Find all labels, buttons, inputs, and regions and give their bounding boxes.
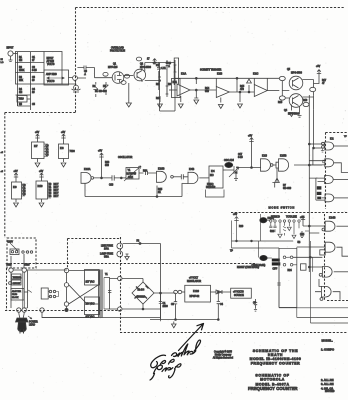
svg-text:SOURCE: SOURCE — [234, 295, 244, 297]
svg-text:+5V: +5V — [300, 217, 305, 219]
svg-text:C8: C8 — [168, 63, 172, 65]
svg-text:R18: R18 — [278, 102, 283, 104]
svg-text:C6: C6 — [84, 71, 88, 73]
svg-text:IC1B: IC1B — [217, 74, 223, 76]
svg-text:3/8A: 3/8A — [104, 256, 109, 259]
svg-text:MHZ: MHZ — [128, 177, 134, 179]
svg-text:R2: R2 — [19, 67, 23, 69]
svg-text:C2: C2 — [32, 67, 36, 69]
svg-text:TOTALIZE: TOTALIZE — [286, 216, 297, 219]
svg-text:MODEL.: MODEL. — [322, 339, 333, 343]
svg-text:+5V: +5V — [248, 136, 253, 138]
svg-text:R35: R35 — [158, 189, 163, 191]
svg-text:4.7K: 4.7K — [161, 68, 166, 70]
svg-text:Q1: Q1 — [23, 188, 27, 190]
svg-text:IC2: IC2 — [330, 139, 334, 141]
svg-text:INPUT: INPUT — [47, 58, 54, 60]
svg-text:Q1: Q1 — [46, 149, 50, 151]
svg-text:VOLTS: VOLTS — [47, 64, 55, 66]
svg-text:R10: R10 — [156, 98, 161, 100]
svg-text:R4: R4 — [19, 89, 23, 91]
svg-text:3.579545: 3.579545 — [127, 174, 137, 176]
svg-text:All Rights Reserved: All Rights Reserved — [213, 357, 234, 360]
svg-text:+5V: +5V — [14, 171, 19, 173]
svg-text:Q3: Q3 — [46, 155, 50, 157]
svg-text:Q2: Q2 — [140, 64, 144, 66]
svg-text:+5V: +5V — [98, 151, 103, 153]
svg-text:RY1: RY1 — [173, 82, 178, 84]
svg-text:MCT: MCT — [54, 193, 60, 195]
svg-text:IC8: IC8 — [60, 148, 64, 150]
svg-text:HI: HI — [1, 59, 4, 61]
svg-text:CUTOUT: CUTOUT — [13, 283, 22, 285]
svg-text:IC1A: IC1A — [181, 73, 187, 76]
svg-text:IC20: IC20 — [193, 289, 199, 293]
svg-text:FREQ: FREQ — [207, 184, 214, 186]
svg-text:R14: R14 — [205, 88, 210, 90]
svg-text:TRIG: TRIG — [24, 265, 30, 267]
svg-text:AMP RMS: AMP RMS — [46, 73, 57, 76]
svg-text:C24: C24 — [300, 234, 305, 236]
svg-text:IC15B: IC15B — [280, 156, 287, 158]
svg-text:MC: MC — [210, 175, 214, 177]
svg-text:R33: R33 — [105, 162, 110, 164]
svg-text:Q3: Q3 — [23, 194, 27, 196]
svg-text:1N4002: 1N4002 — [137, 297, 146, 299]
svg-text:T1: T1 — [105, 274, 108, 276]
svg-text:PERIOD: PERIOD — [271, 217, 280, 219]
svg-text:C18: C18 — [109, 185, 114, 187]
svg-text:+5V: +5V — [316, 66, 321, 68]
svg-text:IC4: IC4 — [211, 171, 215, 173]
svg-text:TRIG: TRIG — [6, 265, 12, 267]
svg-text:IC13: IC13 — [262, 156, 268, 158]
svg-text:100K: 100K — [19, 70, 25, 72]
svg-text:IC10: IC10 — [38, 186, 44, 188]
svg-text:+5V: +5V — [233, 214, 238, 216]
svg-text:OSCILLATOR: OSCILLATOR — [118, 156, 133, 159]
svg-text:IC7: IC7 — [34, 146, 38, 148]
svg-text:27: 27 — [32, 60, 35, 62]
svg-text:IC16B: IC16B — [158, 169, 165, 171]
svg-text:BLOCK: BLOCK — [12, 297, 19, 299]
svg-text:+5: +5 — [1, 152, 4, 154]
svg-text:Q0: Q0 — [23, 185, 27, 187]
svg-text:LAMP FUSE: LAMP FUSE — [100, 253, 113, 256]
svg-text:MOTOROLA: MOTOROLA — [260, 378, 285, 382]
svg-text:1M: 1M — [19, 92, 22, 94]
svg-text:MCT: MCT — [54, 196, 60, 198]
svg-text:330: 330 — [105, 165, 110, 167]
svg-text:SCHMITT TRIGGER: SCHMITT TRIGGER — [200, 70, 222, 72]
svg-text:17: 17 — [147, 59, 150, 61]
svg-text:ADAPTER: ADAPTER — [12, 290, 22, 293]
svg-text:MPF-105: MPF-105 — [108, 67, 118, 69]
svg-text:Heath Company: Heath Company — [215, 354, 232, 357]
svg-text:OSC ADJ: OSC ADJ — [224, 159, 234, 162]
svg-text:MCT: MCT — [54, 190, 60, 192]
svg-text:680: 680 — [205, 91, 210, 93]
svg-text:C23: C23 — [270, 231, 275, 233]
svg-text:IC9: IC9 — [13, 187, 17, 189]
svg-text:.1: .1 — [168, 66, 171, 68]
svg-text:120V: 120V — [8, 242, 14, 244]
svg-text:C4: C4 — [32, 89, 36, 91]
svg-text:F2: F2 — [137, 241, 140, 243]
svg-text:R19: R19 — [303, 100, 308, 102]
svg-text:LO: LO — [1, 62, 4, 64]
svg-text:+5V: +5V — [39, 171, 44, 173]
svg-text:Q5: Q5 — [287, 69, 291, 71]
svg-text:117 VAC: 117 VAC — [86, 316, 95, 319]
svg-text:R24: R24 — [288, 270, 293, 272]
svg-text:7490: 7490 — [70, 151, 76, 153]
svg-text:1000: 1000 — [163, 306, 169, 308]
svg-text:C1: C1 — [32, 57, 36, 59]
svg-text:117 VAC: 117 VAC — [86, 281, 95, 284]
svg-text:+5: +5 — [1, 171, 4, 173]
svg-text:10: 10 — [32, 92, 35, 94]
svg-text:7919: 7919 — [19, 99, 25, 101]
svg-text:39: 39 — [32, 80, 35, 82]
svg-text:1/4A: 1/4A — [104, 248, 109, 251]
svg-text:MCT: MCT — [54, 187, 60, 189]
svg-text:Q1: Q1 — [113, 64, 117, 66]
svg-text:D1 GD-600: D1 GD-600 — [95, 91, 107, 93]
svg-text:LEAD: LEAD — [29, 324, 35, 327]
svg-text:R1: R1 — [19, 57, 23, 59]
svg-text:Q2: Q2 — [46, 152, 50, 154]
svg-text:5-25: 5-25 — [238, 157, 243, 159]
svg-text:R26: R26 — [239, 226, 244, 228]
svg-text:C3: C3 — [32, 77, 36, 79]
svg-text:+5V: +5V — [35, 132, 40, 134]
svg-text:MPS-6566: MPS-6566 — [291, 73, 303, 75]
svg-text:LINE FUSE: LINE FUSE — [101, 246, 113, 248]
svg-text:FREQUENCY COUNTER: FREQUENCY COUNTER — [248, 386, 298, 391]
svg-text:R3: R3 — [19, 77, 23, 79]
svg-text:ATTEN: ATTEN — [47, 60, 55, 63]
svg-text:R34: R34 — [143, 171, 148, 173]
svg-text:PLUG: PLUG — [12, 294, 18, 296]
svg-text:B1: B1 — [49, 187, 53, 189]
svg-text:INPUT: INPUT — [7, 48, 14, 50]
svg-text:THERMAL: THERMAL — [13, 276, 22, 279]
svg-text:1M: 1M — [19, 60, 22, 62]
svg-text:R17: R17 — [322, 80, 327, 82]
svg-text:IC4B: IC4B — [189, 169, 195, 171]
svg-text:Y1: Y1 — [128, 170, 132, 172]
svg-text:POWER: POWER — [29, 322, 38, 324]
svg-text:B4: B4 — [49, 196, 53, 198]
svg-text:NOTED: NOTED — [325, 389, 334, 393]
svg-text:C4: C4 — [220, 304, 224, 306]
svg-text:Q0: Q0 — [46, 146, 50, 148]
svg-text:DIVIDER: DIVIDER — [206, 187, 216, 189]
svg-text:PROTECTION: PROTECTION — [110, 51, 125, 53]
svg-text:+5 VOLTS: +5 VOLTS — [233, 292, 244, 294]
svg-text:1K: 1K — [158, 192, 161, 194]
svg-text:C5: C5 — [32, 104, 36, 106]
svg-text:+5 VOLT: +5 VOLT — [189, 278, 199, 280]
svg-text:Copyright © 1975: Copyright © 1975 — [214, 351, 233, 354]
svg-text:10K: 10K — [19, 80, 24, 82]
svg-text:B2: B2 — [49, 190, 53, 192]
svg-text:TP: TP — [230, 251, 233, 253]
svg-text:5-25: 5-25 — [32, 70, 37, 72]
svg-text:.1: .1 — [84, 74, 87, 76]
svg-text:3. ALL RE: 3. ALL RE — [321, 382, 334, 386]
svg-text:MPS-6566: MPS-6566 — [140, 67, 152, 69]
svg-text:GD-600: GD-600 — [283, 188, 292, 190]
svg-text:VOLTS: VOLTS — [47, 81, 55, 83]
svg-text:IC1C: IC1C — [253, 74, 259, 76]
svg-text:MCT: MCT — [54, 184, 60, 186]
svg-text:234 VAC: 234 VAC — [86, 303, 95, 306]
svg-text:B0: B0 — [49, 184, 53, 186]
svg-text:R15: R15 — [240, 86, 245, 88]
svg-text:1. COMPO: 1. COMPO — [321, 348, 334, 352]
svg-text:B3: B3 — [49, 193, 53, 195]
svg-text:RESET (TIME BASE): RESET (TIME BASE) — [237, 266, 259, 269]
svg-text:REGULATOR: REGULATOR — [187, 280, 201, 283]
svg-text:D1-D4: D1-D4 — [138, 290, 145, 292]
svg-text:OFF: OFF — [273, 269, 278, 271]
svg-text:+5V: +5V — [61, 132, 66, 134]
svg-text:C1: C1 — [163, 303, 167, 305]
svg-text:Q4: Q4 — [284, 110, 288, 112]
svg-text:OVERLOAD: OVERLOAD — [111, 47, 124, 50]
svg-text:IC16A: IC16A — [84, 168, 91, 171]
svg-text:FREQUENCY COUNTER: FREQUENCY COUNTER — [251, 361, 301, 365]
svg-text:Q2: Q2 — [23, 191, 27, 193]
svg-text:MPS-6566: MPS-6566 — [288, 114, 300, 116]
svg-text:2. ALL RE: 2. ALL RE — [321, 378, 334, 382]
svg-text:TP: TP — [344, 136, 347, 138]
svg-text:IC14B: IC14B — [329, 218, 336, 220]
svg-text:MODE SWITCH: MODE SWITCH — [269, 206, 295, 210]
svg-text:MPSF-02: MPSF-02 — [190, 296, 200, 298]
svg-text:5B: 5B — [298, 242, 301, 244]
svg-text:C17: C17 — [238, 154, 243, 156]
svg-text:470: 470 — [240, 89, 245, 91]
svg-text:47: 47 — [322, 83, 325, 85]
svg-text:D7: D7 — [283, 185, 287, 187]
